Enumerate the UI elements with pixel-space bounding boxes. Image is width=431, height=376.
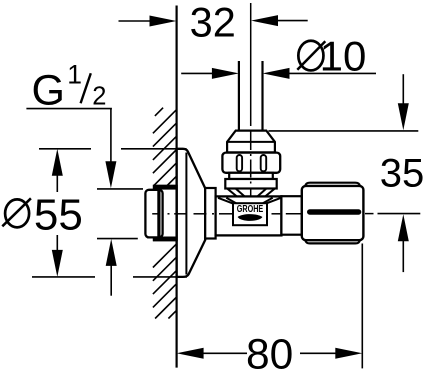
svg-text:55: 55	[34, 191, 83, 240]
dimension Ø55 extension and dimension lines	[32, 149, 187, 277]
dimension 80 lines	[203, 244, 363, 369]
bonnet band	[225, 179, 276, 189]
compression nut	[222, 153, 280, 173]
dimension 32 lines	[119, 20, 308, 22]
wall hatching	[153, 108, 177, 319]
svg-text:1: 1	[67, 59, 82, 89]
washer	[229, 173, 273, 179]
dimension 32 arrowheads	[150, 16, 177, 27]
svg-text:10: 10	[320, 33, 367, 80]
handle slot	[307, 209, 361, 214]
wall face line	[176, 6, 178, 368]
G1/2 arrowheads	[105, 161, 116, 188]
valve body	[216, 196, 282, 235]
dimension Ø10 lines	[181, 72, 376, 74]
G1/2 thread fitting	[153, 185, 177, 242]
G1/2 leader and arrows	[26, 109, 143, 296]
handle	[302, 183, 364, 244]
svg-text:32: 32	[190, 0, 236, 45]
vertical centerline	[250, 3, 252, 196]
GROHE swoosh	[238, 214, 263, 221]
dimension Ø55 arrowheads	[52, 149, 63, 176]
rosette rim line	[185, 153, 187, 275]
compression cap	[227, 131, 275, 153]
fitting nut	[145, 190, 162, 238]
dimension 80 arrowheads	[177, 348, 204, 359]
dimension 35 arrowheads	[398, 103, 409, 130]
svg-text:GROHE: GROHE	[237, 204, 264, 215]
collar ring	[205, 188, 215, 239]
svg-text:80: 80	[246, 332, 293, 376]
svg-text:35: 35	[380, 151, 425, 195]
dimension 35 extension and dimension lines	[268, 74, 420, 272]
svg-text:2: 2	[92, 83, 106, 111]
outlet neck	[281, 196, 301, 235]
rosette escutcheon Ø55	[177, 149, 206, 277]
riser pipe Ø10 walls	[238, 61, 240, 130]
dimension Ø55 diameter symbol	[5, 199, 29, 227]
horizontal centerline	[152, 213, 373, 215]
bonnet funnel slants	[218, 189, 281, 204]
dimension Ø10 diameter symbol	[298, 41, 323, 71]
svg-text:G: G	[32, 67, 65, 115]
GROHE label box	[233, 203, 267, 225]
dimension Ø10 arrowheads	[212, 68, 239, 79]
